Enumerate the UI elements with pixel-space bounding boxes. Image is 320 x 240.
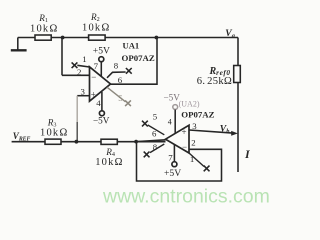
- pin 4 UA2 -5V: [164, 93, 181, 134]
- svg-text:−: −: [182, 142, 187, 152]
- svg-text:10kΩ: 10kΩ: [30, 24, 59, 35]
- pin 1 UA1 with X: [72, 62, 90, 68]
- svg-text:OP07AZ: OP07AZ: [122, 53, 155, 63]
- node A junction: [75, 140, 79, 144]
- svg-text:7: 7: [94, 61, 99, 71]
- wire top rail: [18, 37, 238, 39]
- wire UA1 feedback vertical: [61, 38, 63, 76]
- svg-text:6.25kΩ: 6.25kΩ: [197, 76, 233, 87]
- pin 7 UA1 +5V: [93, 45, 110, 76]
- pin 7 UA2 +5V: [164, 145, 181, 179]
- svg-text:5: 5: [118, 93, 123, 103]
- wire node A vertical (faded): [76, 96, 78, 122]
- svg-text:(UA2): (UA2): [179, 100, 200, 109]
- svg-text:8: 8: [114, 61, 119, 71]
- svg-text:4: 4: [96, 98, 101, 108]
- pin 8 UA2 with X: [144, 142, 165, 157]
- pin 1 UA2 with X: [189, 153, 210, 171]
- resistor R4: [95, 139, 124, 168]
- svg-text:+5V: +5V: [93, 45, 110, 56]
- svg-text:OP07AZ: OP07AZ: [181, 110, 214, 120]
- resistor R2: [82, 12, 111, 40]
- svg-text:7: 7: [168, 152, 173, 162]
- resistor R1: [30, 13, 59, 40]
- ground: [11, 38, 27, 51]
- svg-text:6: 6: [118, 75, 123, 85]
- pin 6 UA2 output wire: [136, 140, 165, 142]
- svg-text:2: 2: [191, 138, 195, 148]
- svg-text:5: 5: [153, 112, 158, 122]
- svg-text:−5V: −5V: [164, 93, 181, 103]
- pin 2 UA2 feedback loop wire: [137, 142, 222, 181]
- pin 4 UA1 -5V: [93, 92, 110, 126]
- wire right vertical rail: [237, 38, 239, 173]
- node B junction: [134, 140, 138, 144]
- pin 3 UA2 output to Vb: [189, 121, 238, 136]
- svg-text:−: −: [91, 72, 96, 82]
- pin 8 UA1 with X: [107, 61, 132, 78]
- svg-text:10kΩ: 10kΩ: [95, 157, 124, 168]
- svg-text:www.cntronics.com: www.cntronics.com: [102, 186, 270, 207]
- wire bottom rail VREF: [12, 141, 166, 143]
- wire UA1 pin2: [62, 74, 90, 76]
- svg-text:10kΩ: 10kΩ: [40, 128, 69, 139]
- svg-text:2: 2: [77, 67, 81, 77]
- svg-text:10kΩ: 10kΩ: [82, 23, 111, 34]
- pin 5 UA2 with X: [142, 112, 164, 135]
- node Va corner junction: [155, 36, 159, 40]
- svg-text:8: 8: [153, 142, 158, 152]
- svg-text:−5V: −5V: [93, 116, 110, 126]
- svg-text:3: 3: [81, 87, 86, 97]
- resistor R3: [40, 118, 69, 145]
- op-amp UA2: [166, 100, 215, 153]
- svg-text:+: +: [91, 90, 96, 100]
- svg-text:+5V: +5V: [164, 168, 181, 179]
- svg-text:3: 3: [192, 121, 197, 131]
- pin 5 UA1 with X: [107, 87, 131, 106]
- svg-text:1: 1: [82, 54, 86, 64]
- svg-text:1: 1: [190, 154, 194, 164]
- pin 6 UA1 output wire: [111, 38, 158, 85]
- svg-text:4: 4: [168, 118, 172, 127]
- svg-text:UA1: UA1: [123, 40, 140, 50]
- op-amp UA1: [90, 40, 155, 101]
- resistor Rref: [197, 66, 241, 87]
- wire UA1 pin3: [77, 95, 89, 97]
- svg-text:6: 6: [152, 129, 157, 139]
- node junction R1/R2: [61, 36, 65, 40]
- svg-text:+: +: [182, 127, 187, 137]
